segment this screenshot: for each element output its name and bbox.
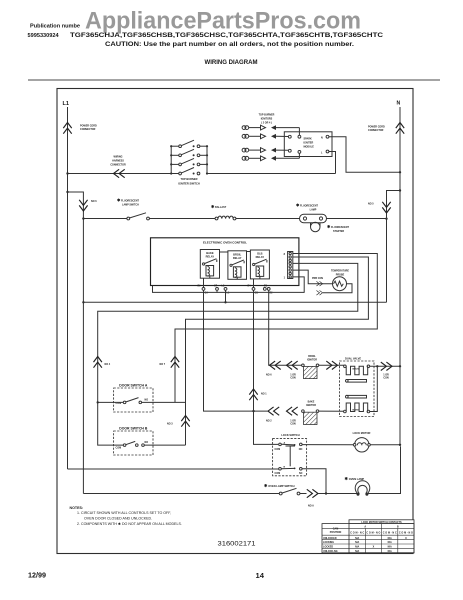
svg-text:NO: NO [145, 441, 149, 444]
connector chevron no3 [167, 416, 190, 427]
wire fluorescent branch from L1 [66, 191, 127, 219]
svg-text:✱ FLUORESCENT: ✱ FLUORESCENT [117, 198, 139, 203]
top burner ignitor 4 [242, 153, 299, 160]
top burner ignitor 2 [242, 134, 288, 139]
svg-text:NO 1: NO 1 [261, 393, 267, 396]
svg-text:N/A: N/A [355, 546, 359, 549]
wire W1 [153, 286, 305, 293]
svg-text:N: N [321, 136, 323, 139]
svg-text:N/A: N/A [355, 537, 359, 540]
wire lock motor to N bus [370, 444, 401, 446]
svg-text:TEMPERATURE: TEMPERATURE [331, 270, 349, 273]
svg-text:N/A: N/A [388, 546, 392, 549]
svg-text:DOOR SWITCH A: DOOR SWITCH A [119, 384, 148, 388]
wire N bus vertical [399, 107, 401, 446]
wire lamp to N branch [327, 218, 388, 220]
svg-text:DUAL VALVE: DUAL VALVE [345, 357, 361, 361]
svg-text:NO 3: NO 3 [167, 423, 173, 426]
wire probe loop [323, 284, 352, 293]
footer page number 14 [256, 571, 265, 580]
wire bake ignitor to valve [319, 410, 344, 412]
chevron valve to N [381, 362, 392, 380]
wire relay links [220, 251, 251, 254]
svg-text:COM: COM [275, 448, 281, 451]
svg-text:HARNESS: HARNESS [112, 160, 124, 163]
svg-text:IGNITOR: IGNITOR [307, 358, 317, 361]
svg-text:LOCKED: LOCKED [323, 546, 333, 549]
power cord connector L1 [63, 123, 97, 134]
svg-text:OVEN DOOR CLOSED AND UNLOCKED.: OVEN DOOR CLOSED AND UNLOCKED. [84, 516, 152, 520]
publication number value 5995330924 [28, 33, 60, 39]
svg-text:IGNITORS: IGNITORS [261, 118, 273, 121]
svg-text:CONNECTOR: CONNECTOR [368, 129, 384, 132]
svg-text:NO: NO [145, 399, 149, 402]
svg-text:✱ OVEN LAMP SWITCH: ✱ OVEN LAMP SWITCH [264, 483, 295, 488]
svg-text:TOP BURNER: TOP BURNER [259, 114, 275, 117]
spark igniter module U1 [284, 132, 332, 157]
wire main top L1 run [66, 172, 335, 174]
svg-text:ELECTRONIC OVEN CONTROL: ELECTRONIC OVEN CONTROL [203, 240, 247, 244]
svg-text:14: 14 [256, 571, 265, 580]
svg-text:Publication numbe: Publication numbe [30, 24, 80, 30]
broil connector chevrons [266, 361, 298, 380]
wire W5 [186, 257, 369, 445]
bake circuit connector chevrons [266, 407, 298, 426]
svg-text:L1: L1 [63, 101, 70, 107]
svg-text:N/A: N/A [355, 550, 359, 553]
wire chevron to lamp [318, 492, 358, 494]
svg-text:TGF365CHJA,TGF365CHSB,TGF365CH: TGF365CHJA,TGF365CHSB,TGF365CHSC,TGF365C… [70, 32, 383, 39]
svg-text:NO A: NO A [308, 505, 314, 508]
relay K3 dlb [250, 250, 269, 279]
svg-text:LAMP SWITCH: LAMP SWITCH [122, 204, 139, 207]
svg-text:WIRING: WIRING [114, 156, 123, 159]
svg-text:MODULE: MODULE [304, 146, 315, 149]
relay K1 bake [200, 250, 219, 279]
svg-text:N/A: N/A [355, 541, 359, 544]
wire N branch vertical with connector [368, 189, 401, 302]
svg-text:PRB CON: PRB CON [312, 277, 323, 280]
wire door B no to no3 [144, 444, 185, 446]
svg-text:POSITION: POSITION [330, 531, 342, 534]
notes [70, 506, 182, 526]
svg-text:CONNECTOR: CONNECTOR [80, 128, 96, 131]
node N [397, 101, 401, 107]
svg-text:NO 4: NO 4 [105, 363, 111, 366]
svg-text:COM-NO: COM-NO [366, 532, 380, 535]
wire terminal E3 to broil circuit [268, 290, 271, 365]
footer date 12/99 [28, 571, 46, 580]
svg-text:COM: COM [116, 447, 122, 450]
svg-text:NO: NO [299, 448, 303, 451]
wire terminal E4 to lock switch [252, 290, 278, 444]
wire terminal E9 to bake circuit [204, 290, 268, 411]
svg-text:SPARK: SPARK [304, 138, 312, 141]
header rule [28, 79, 440, 81]
svg-text:NO 7: NO 7 [160, 363, 166, 366]
svg-text:NO 6: NO 6 [266, 374, 272, 377]
wire terminal C7 stub [216, 290, 218, 293]
svg-text:5995330924: 5995330924 [28, 33, 60, 39]
svg-text:✱ FLUORESCENT: ✱ FLUORESCENT [296, 203, 318, 208]
diagram border box [57, 89, 413, 554]
svg-text:316002171: 316002171 [218, 541, 256, 548]
svg-text:RELAY: RELAY [206, 255, 215, 259]
wire pin8 to probe return [293, 277, 304, 293]
svg-text:TOP BURNER: TOP BURNER [180, 177, 197, 181]
svg-text:BAKE: BAKE [206, 251, 214, 255]
wire valve common to N [370, 365, 401, 411]
wire oven lamp to N [367, 446, 401, 493]
door switch B [114, 426, 153, 455]
svg-text:CON: CON [383, 377, 389, 380]
svg-text:DOOR SWITCH B: DOOR SWITCH B [119, 426, 148, 430]
wire spark module N to N bus [329, 137, 401, 174]
svg-text:BROIL: BROIL [353, 369, 360, 371]
bake ignitor [302, 401, 319, 425]
svg-text:N: N [397, 101, 401, 107]
svg-text:LAMP: LAMP [310, 209, 317, 212]
broil ignitor [302, 355, 319, 379]
top burner ignitors label [259, 114, 275, 125]
svg-text:12/99: 12/99 [28, 571, 46, 580]
svg-text:( 2 OR 4 ): ( 2 OR 4 ) [261, 121, 272, 124]
fluorescent starter [311, 222, 350, 233]
svg-text:8: 8 [284, 253, 286, 256]
broil circuit wire [270, 364, 345, 366]
svg-text:COM-NC: COM-NC [350, 532, 364, 535]
connector chevron fluorescent branch [79, 200, 97, 211]
ballast [211, 204, 236, 220]
wire W3 [98, 263, 358, 445]
svg-text:CON: CON [290, 377, 296, 380]
wire W4 [175, 254, 377, 403]
watermark AppliancePartsPros.com [85, 8, 361, 35]
fluorescent lamp switch S2 [117, 198, 149, 220]
svg-text:LOCKING: LOCKING [323, 541, 334, 544]
svg-text:1: 1 [284, 277, 286, 280]
wire pin6 to probe [293, 270, 333, 284]
svg-text:CONNECTOR: CONNECTOR [110, 164, 126, 167]
svg-text:WIRING DIAGRAM: WIRING DIAGRAM [205, 59, 258, 66]
lock motor switch contacts table [322, 520, 414, 553]
svg-text:AppliancePartsPros.com: AppliancePartsPros.com [85, 8, 361, 35]
svg-text:LOCK MOTOR SWITCH CONTACTS: LOCK MOTOR SWITCH CONTACTS [361, 521, 402, 524]
wire lock switch no to lock motor [302, 444, 353, 446]
svg-text:UNLOCKED: UNLOCKED [323, 537, 337, 540]
wire ballast to lamp [236, 218, 300, 220]
svg-text:BROIL: BROIL [233, 252, 241, 256]
svg-text:IGNITOR: IGNITOR [306, 404, 316, 407]
svg-text:UNLOCK-NG: UNLOCK-NG [323, 550, 338, 553]
svg-text:L: L [321, 151, 323, 154]
svg-text:A: A [364, 526, 366, 529]
svg-text:DLB: DLB [257, 252, 262, 256]
svg-text:NC: NC [299, 472, 303, 475]
svg-text:2. COMPONENTS WITH ✱ DO NOT A: 2. COMPONENTS WITH ✱ DO NOT APPEAR ON AL… [77, 522, 182, 526]
wire relay coil stubs [204, 276, 260, 288]
probe connector chevron top [312, 277, 323, 286]
wire terminal L3 stub [224, 290, 226, 303]
svg-text:N/A: N/A [388, 541, 392, 544]
wire switch to ballast [149, 218, 216, 220]
svg-text:NO 5: NO 5 [368, 203, 374, 206]
wire door A com feed [97, 401, 124, 403]
wire spark module L to main wire [329, 152, 336, 174]
svg-text:COM: COM [275, 472, 281, 475]
lock motor M1 [353, 431, 371, 452]
svg-text:BAKE: BAKE [353, 408, 360, 411]
electronic oven control box [151, 238, 299, 286]
svg-text:IGNITER: IGNITER [304, 142, 314, 145]
svg-text:✱ BALLAST: ✱ BALLAST [211, 204, 227, 209]
svg-text:NO 6: NO 6 [91, 200, 97, 203]
wire door A no to no7 [142, 401, 186, 403]
wire fluorescent riser bus [82, 217, 84, 493]
svg-text:N/A: N/A [388, 550, 392, 553]
connector chevron no4 door feed [94, 357, 111, 368]
connector chevron no7 [160, 357, 180, 368]
svg-text:LOCK MOTOR: LOCK MOTOR [353, 431, 371, 435]
svg-text:COM-NC: COM-NC [383, 532, 397, 535]
eoc terminals row [198, 284, 274, 294]
dual valve [340, 357, 375, 417]
lock switch [273, 433, 307, 476]
top burner igniter switch bank [170, 140, 208, 185]
probe connector chevron bottom [316, 290, 322, 295]
model numbers line [70, 32, 383, 39]
fluorescent lamp [296, 203, 327, 223]
svg-text:PROBE: PROBE [336, 274, 345, 277]
caution line [105, 42, 354, 48]
chevron broil to valve [326, 361, 337, 369]
document number 316002171 [218, 541, 256, 548]
connector chevron no1 [249, 389, 267, 400]
wire L1 bus to lock switch com B [68, 468, 279, 470]
svg-text:B: B [397, 526, 399, 529]
harness connector on main wire [110, 156, 126, 178]
svg-text:NO 2: NO 2 [266, 420, 272, 423]
wire lamp switch feed [83, 493, 279, 495]
oven lamp [345, 476, 370, 496]
wire lock switch nc to lamp junction [302, 469, 326, 494]
svg-text:RELAY: RELAY [256, 255, 265, 259]
svg-text:STARTER: STARTER [333, 230, 344, 233]
temperature probe RT1 [331, 270, 349, 291]
publication number label [30, 24, 80, 30]
title WIRING DIAGRAM [205, 59, 258, 66]
oven lamp switch [264, 483, 300, 495]
top burner ignitor 1 [242, 125, 299, 135]
svg-text:CON: CON [290, 423, 296, 426]
svg-text:COM-NO: COM-NO [399, 532, 413, 535]
top burner ignitor 3 [242, 148, 288, 153]
door switch A [114, 384, 153, 413]
svg-text:CAUTION: Use the part number: CAUTION: Use the part number on all orde… [105, 42, 354, 48]
svg-text:IGNITER SWITCH: IGNITER SWITCH [178, 181, 200, 185]
node L1 [63, 101, 70, 107]
svg-text:N/A: N/A [388, 537, 392, 540]
svg-text:✱ FLUORESCENT: ✱ FLUORESCENT [327, 224, 349, 229]
svg-text:NOTES:: NOTES: [70, 506, 84, 510]
connector chevron no A [300, 489, 318, 507]
svg-text:RELAY: RELAY [233, 256, 242, 260]
wire L1 bus vertical [67, 107, 69, 469]
svg-text:1. CIRCUIT SHOWN WITH ALL CON: 1. CIRCUIT SHOWN WITH ALL CONTROLS SET T… [77, 511, 171, 515]
wire W2 [82, 301, 386, 303]
power cord connector N [368, 123, 404, 134]
svg-text:✱ OVEN LAMP: ✱ OVEN LAMP [345, 476, 365, 481]
relay K2 broil [228, 251, 247, 279]
svg-text:LOCK SWITCH: LOCK SWITCH [281, 433, 299, 437]
eoc pin connector strip [284, 252, 293, 280]
